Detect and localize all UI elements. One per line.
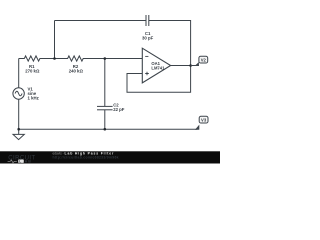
svg-text:240 kΩ: 240 kΩ — [69, 69, 84, 74]
node C2 top junction — [104, 57, 107, 60]
op-amp minus input symbol — [145, 55, 148, 57]
svg-text:V2: V2 — [201, 57, 207, 62]
label R2 value — [69, 64, 84, 74]
wire left rail top (R1 corner down to V1 top) — [18, 59, 20, 88]
node ground junction — [17, 128, 20, 131]
flag V3 — [195, 116, 208, 130]
capacitor C1 — [146, 15, 149, 26]
capacitor C2 — [97, 106, 113, 109]
svg-text:30 pF: 30 pF — [142, 35, 154, 40]
label R1 value — [25, 64, 40, 74]
label V1 value — [28, 87, 39, 101]
svg-text:V3: V3 — [201, 117, 207, 122]
ground — [13, 129, 24, 139]
svg-text:http://circuitlab.com/c68233/9: http://circuitlab.com/c68233/9m96k — [53, 155, 119, 159]
resistor R1 — [19, 56, 55, 61]
svg-text:AB: AB — [25, 160, 32, 164]
node output junction — [189, 64, 192, 67]
footer logo CIRCUIT LAB — [8, 155, 36, 163]
resistor R2 — [55, 56, 143, 61]
flag V2 — [191, 56, 208, 66]
wire C2 branch down from main wire — [104, 59, 106, 107]
label C1 value — [142, 31, 154, 40]
svg-text:270 kΩ: 270 kΩ — [25, 69, 40, 74]
node R1/R2 junction — [53, 57, 56, 60]
wire feedback loop from + input — [127, 66, 191, 93]
label OA1 — [151, 61, 165, 71]
wire V1 bottom to ground junction — [18, 99, 20, 129]
footer bar — [0, 151, 220, 163]
svg-text:1 kHz: 1 kHz — [28, 96, 39, 101]
op-amp OA1 triangle — [142, 48, 170, 83]
svg-text:22 pF: 22 pF — [113, 107, 125, 112]
svg-text:LM741: LM741 — [151, 66, 165, 71]
svg-text:L: L — [19, 159, 21, 163]
wire top right of C1 to right drop — [149, 21, 191, 66]
node C2 bottom junction — [104, 128, 107, 131]
wire bottom ground rail — [19, 128, 198, 130]
wire riser from R1/R2 node up to top wire — [54, 21, 56, 59]
wire op-amp output to node — [171, 65, 191, 67]
op-amp plus input symbol — [145, 72, 149, 76]
wire C2 bottom to ground rail — [104, 110, 106, 129]
label C2 value — [113, 103, 125, 113]
voltage source V1 — [13, 88, 24, 99]
wire top left of C1 — [55, 20, 147, 22]
